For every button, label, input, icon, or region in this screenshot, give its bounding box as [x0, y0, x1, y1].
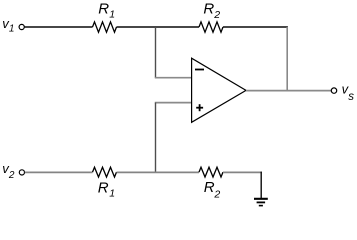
svg-text:2: 2 — [213, 9, 220, 21]
node A — [155, 27, 157, 78]
node B — [155, 103, 157, 173]
terminal v1 — [19, 24, 24, 29]
wire — [117, 171, 200, 173]
wire — [260, 172, 262, 199]
wire — [117, 26, 200, 28]
resistor R2 bottom — [199, 167, 223, 177]
resistor R2 — [199, 22, 223, 32]
svg-text:R: R — [98, 1, 109, 18]
svg-text:R: R — [203, 1, 214, 18]
op-amp U1 — [192, 58, 246, 122]
wire — [25, 171, 93, 173]
svg-text:R: R — [98, 179, 109, 196]
label v2 — [2, 161, 15, 181]
label vs — [342, 81, 355, 103]
svg-text:1: 1 — [109, 8, 115, 20]
label R2 bottom — [204, 179, 221, 201]
terminal v2 — [19, 170, 24, 175]
wire — [246, 90, 331, 92]
svg-text:1: 1 — [109, 188, 115, 200]
resistor R1 — [93, 22, 117, 32]
terminal vs — [331, 88, 336, 93]
resistor R1 bottom — [93, 167, 117, 177]
ground — [254, 199, 268, 206]
label R1 — [98, 1, 115, 21]
svg-text:1: 1 — [9, 24, 15, 35]
wire — [223, 26, 288, 28]
svg-text:R: R — [204, 179, 215, 196]
svg-text:s: s — [348, 91, 354, 103]
svg-text:2: 2 — [8, 170, 15, 181]
wire — [155, 77, 192, 79]
svg-text:2: 2 — [213, 189, 220, 201]
wire — [25, 26, 93, 28]
label R2 — [203, 1, 220, 21]
label R1 bottom — [98, 179, 115, 199]
wire — [286, 27, 288, 91]
wire — [155, 102, 192, 104]
label v1 — [2, 16, 14, 35]
wire — [223, 171, 262, 173]
